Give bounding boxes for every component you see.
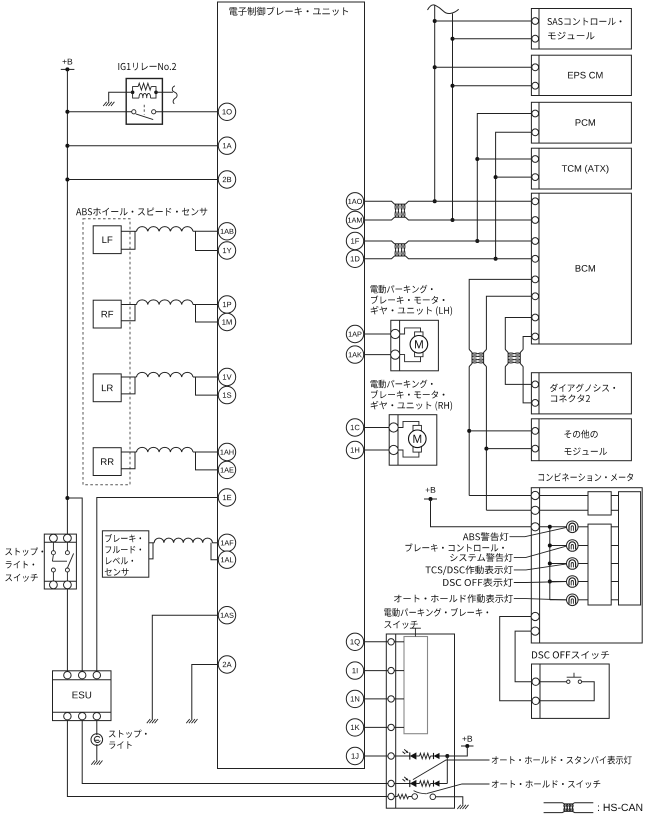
DSC OFF switch connector pins (532, 678, 539, 685)
cable break (wavy) at top (428, 5, 459, 14)
pin 1O (218, 103, 235, 120)
label ブレーキ・コントロール・システム警告灯 (405, 543, 504, 551)
wire to TCM pin 1 (477, 158, 531, 160)
lamp auto hold indicator (567, 594, 579, 606)
label コンビネーション・メータ (539, 473, 634, 481)
wire to other modules pin 2 (486, 448, 531, 450)
unit ESU (53, 671, 112, 721)
sensor LR (ABS wheel speed) (93, 374, 121, 402)
wire +B to 1J row (447, 746, 467, 756)
wire LR sensor to pins (paired cable with coil) (121, 376, 136, 378)
pin 1AS (218, 607, 235, 624)
wire meter to DSC OFF switch (2) (500, 617, 532, 701)
power +B (meter) (426, 487, 436, 493)
wire HS-CAN pins 1F/1D to BCM (twisted pair) (364, 241, 532, 244)
pin 1AE (218, 461, 235, 478)
lamp TCS/DSC indicator (567, 558, 579, 570)
wire pin 1AK to motor LH (364, 354, 391, 356)
wire HS-CAN pins 1AO/1AM to BCM (twisted pair) (364, 201, 532, 204)
pin 1AB (218, 223, 235, 240)
lamp brake control system warning (567, 540, 579, 552)
junction 1J row / +B (445, 754, 449, 758)
pin 1AK (346, 346, 363, 363)
junction on +B rail at 1O row (65, 110, 69, 114)
pin 1D (346, 250, 363, 267)
pin 1V (218, 368, 235, 385)
DSC OFF switch contacts (567, 680, 570, 683)
pin 1M (218, 313, 235, 330)
label TCS/DSC作動表示灯 (426, 566, 513, 576)
meter internal block (upper) (588, 492, 611, 515)
junction PCM branch / 1F row (475, 239, 479, 243)
parking brake switch actuator (414, 628, 416, 636)
pin 1Y (218, 242, 235, 259)
ground (stop light) (91, 761, 102, 765)
wire pin 1AP to motor LH (364, 333, 391, 335)
stop light switch blades (52, 555, 53, 562)
wire RF sensor to pins (paired cable with coil) (121, 304, 136, 306)
motor M (RH) (413, 425, 421, 430)
pin 1K (346, 719, 363, 736)
relay switch blade (136, 114, 153, 120)
switch 電動パーキング・ブレーキ・スイッチ box (386, 634, 454, 808)
wire ESU to auto-hold LED row (upper) (82, 720, 388, 784)
sensor RF (ABS wheel speed) (93, 300, 121, 328)
auto-hold switch contacts (412, 794, 418, 800)
wire PCM pin1 branch (477, 114, 531, 242)
wire +B rail branch to ESU (1E row) (67, 498, 82, 672)
wire ECU pins to parking brake switch (364, 641, 388, 643)
junction pair A / other-module row 1 (467, 429, 471, 433)
wire meter to DSC OFF switch (1) (515, 631, 531, 682)
connector pins motor (RH) (389, 423, 398, 432)
wire relay coil right lead (break) (156, 91, 173, 93)
wire relay coil to ground (109, 92, 133, 102)
pin 1AO (346, 193, 363, 210)
wire +B rail to pin 1A (67, 145, 218, 147)
relay mechanical link (dashed) (143, 105, 145, 115)
wire pin 1E to ESU (97, 498, 219, 672)
label 電動パーキング・ブレーキ・スイッチ (384, 608, 488, 617)
legend HS-CAN twisted pair symbol (544, 803, 594, 804)
pin 1AM (346, 211, 363, 228)
junction trunk A / SAS row (433, 19, 437, 23)
power +B (top left) (63, 59, 73, 65)
pin 2A (218, 656, 235, 673)
wire ESU to stop light bulb (96, 720, 98, 735)
connector pins motor (LH) (391, 329, 400, 338)
lamp ABS warning (567, 521, 579, 533)
wire fluid sensor to pins 1AF/1AL (paired cable with coil) (149, 542, 154, 544)
pin 1F (346, 232, 363, 249)
pin 1J (346, 747, 363, 764)
wire LF sensor to pins (paired cable with coil) (121, 230, 136, 232)
pin 1AP (346, 325, 363, 342)
twist symbol pair B (505, 349, 508, 366)
pin 1A (218, 137, 235, 154)
wire CAN trunk B (from break) (452, 14, 454, 220)
meter internal block (right) (619, 492, 641, 605)
relay resistor (parallel) (133, 87, 139, 93)
resistor (1J row) (416, 755, 419, 757)
wire IG1 relay contact to pin 1O (156, 111, 219, 113)
junction on +B rail at 2B row (65, 178, 69, 182)
junction trunk A / EPS row (433, 65, 437, 69)
label オート・ホールド作動表示灯 (394, 594, 513, 603)
diode (1J row) (431, 755, 434, 757)
junction pair A / other-module row 2 (484, 447, 488, 451)
junction lamp bus rows (548, 525, 552, 529)
wire +B rail down to stop light switch (66, 69, 68, 534)
junction trunk A / 1AO row (433, 199, 437, 203)
wire +B rail to pin 2B (67, 179, 218, 181)
unit parking brake motor (RH) box (389, 415, 437, 466)
lamp DSC OFF indicator (567, 576, 579, 588)
wire motor internal (LH) (400, 328, 421, 334)
sensor ブレーキ・フルード・レベル・センサ (102, 531, 148, 577)
diode (LED row 2) (431, 783, 434, 785)
sensor LF (ABS wheel speed) (93, 226, 121, 254)
resistor (LED row 2) (416, 783, 419, 785)
relay IG1リレーNo.2 (118, 63, 176, 71)
ECU box 電子制御ブレーキ・ユニット (218, 2, 365, 769)
wire pin 2A to ground (192, 665, 219, 720)
junction on +B rail at 1A row (65, 144, 69, 148)
legend text HS-CAN (598, 804, 642, 811)
junction on +B rail at 1E row (65, 496, 69, 500)
resistor (auto-hold switch row) (394, 796, 397, 798)
switch DSC OFF box (532, 664, 610, 718)
pin 1P (218, 296, 235, 313)
wire pin 1AS to ground (152, 615, 218, 719)
pin 1AF (218, 534, 235, 551)
wire RR sensor to pins (paired cable with coil) (121, 451, 136, 453)
wire +B rail to IG1 relay contact (67, 111, 131, 113)
wire switch rows to block (394, 641, 404, 643)
pin 1C (346, 419, 363, 436)
module その他のモジュール (531, 419, 631, 461)
wire to EPS CM pin 1 (435, 66, 532, 68)
pin 1E (218, 489, 235, 506)
wire PCM pin2 branch (496, 132, 532, 258)
power +B (switch) (462, 736, 472, 742)
DSC OFF switch actuator (567, 676, 582, 678)
wire to SAS control module pin 1 (435, 20, 532, 22)
LED auto-hold indicator row (394, 783, 410, 785)
wire stop light bulb to ground (96, 744, 98, 760)
module BCM (531, 193, 631, 344)
ground (2A) (186, 719, 197, 723)
label 電動パーキング・ブレーキ・モータ・ギヤ・ユニット (LH) (371, 285, 433, 294)
module EPS CM (531, 55, 631, 95)
wire motor internal (RH) (398, 421, 419, 427)
wire 1J junction down to LED row 2 (446, 756, 448, 784)
pin 1H (346, 441, 363, 458)
junction trunk B / EPS row (451, 84, 455, 88)
parking brake switch connector pins (388, 639, 394, 645)
label 電動パーキング・ブレーキ・モータ・ギヤ・ユニット (RH) (371, 380, 433, 389)
stop light switch connector pins (50, 534, 58, 542)
relay switch contacts (132, 110, 136, 114)
wire lamp to resistor block (auto hold indicator) (578, 599, 588, 601)
meter connector pins (531, 491, 539, 499)
relay coil node left (131, 91, 135, 95)
wire to TCM pin 2 (496, 176, 532, 178)
relay coil node right (154, 91, 158, 95)
label オート・ホールド・スイッチ (492, 780, 601, 788)
motor M (LH) (415, 332, 423, 337)
pin 1AH (218, 443, 235, 460)
wire lamp to resistor block (TCS/DSC indicator) (578, 563, 588, 565)
module PCM (531, 102, 631, 143)
pin 2B (218, 171, 235, 188)
wire lamp to resistor block (ABS warning) (578, 526, 588, 528)
wire meter pins to upper block (539, 495, 588, 497)
wire to SAS control module pin 2 (453, 38, 532, 40)
wire stop light switch to ESU (66, 589, 68, 672)
pin 1AL (218, 551, 235, 568)
wire to EPS CM pin 2 (453, 85, 532, 87)
ground (1AS) (147, 719, 158, 723)
unit parking brake motor (LH) box (391, 320, 439, 371)
meter lamp driver block (588, 524, 611, 605)
pin 1S (218, 386, 235, 403)
wire DSC OFF switch internal (539, 681, 566, 683)
wire lamp to resistor block (brake control system warning) (578, 545, 588, 547)
meter コンビネーション・メータ box (531, 488, 642, 643)
switch ストップ・ライト・スイッチ (5, 547, 43, 555)
lamp ストップ・ライト (stop light bulb) (91, 734, 103, 746)
junction trunk B / SAS row (451, 37, 455, 41)
wire +B to meter lamp feed (431, 499, 532, 527)
wire auto-hold switch to ground (436, 797, 463, 805)
auto-hold switch blade (414, 791, 427, 794)
junction PCM branch / TCM row (475, 157, 479, 161)
wire BCM pin5 to combination meter (twisted pair A) (469, 279, 531, 349)
twist symbol pair A (469, 349, 472, 366)
ground (IG1 relay coil) (103, 102, 114, 106)
module SASコントロール・モジュール (531, 9, 631, 50)
junction PCM2 branch / TCM row (494, 175, 498, 179)
wire BCM pin6 to combination meter (twisted pair A) (486, 296, 531, 349)
label DSC OFFスイッチ (532, 651, 609, 659)
junction trunk B / 1AM row (451, 218, 455, 222)
ABS sensors dashed enclosure (83, 219, 130, 485)
module TCM (ATX) (531, 148, 631, 189)
LED auto-hold standby row (1J) (394, 755, 410, 757)
wire BCM pin7 to diagnosis connector (twisted pair B) (505, 318, 531, 350)
label ABSホイール・スピード・センサ (76, 208, 207, 216)
wire to other modules pin 1 (469, 430, 531, 432)
parking brake switch internal block (404, 637, 428, 734)
label ABS警告灯 (463, 532, 509, 541)
ground (auto-hold switch) (457, 805, 468, 809)
pin 1I (346, 662, 363, 679)
wire lamp to resistor block (DSC OFF indicator) (578, 581, 588, 583)
stop light switch internal links (52, 542, 54, 551)
wire meter lamp bus (539, 526, 566, 528)
pin 1N (346, 690, 363, 707)
stop light switch contacts (51, 551, 55, 555)
wire ESU to auto-hold switch row (lower) (67, 720, 388, 797)
junction PCM2 branch / 1D row (494, 257, 498, 261)
pin 1Q (346, 633, 363, 650)
wire pin 1H to motor RH (364, 449, 390, 451)
label DSC OFF表示灯 (443, 578, 513, 587)
label オート・ホールド・スタンバイ表示灯 (492, 756, 632, 765)
wire CAN trunk A (from break) (434, 5, 436, 201)
connector ダイアグノシス・コネクタ2 (531, 373, 631, 414)
wire BCM pin8 to diagnosis connector (twisted pair B) (523, 337, 531, 350)
relay coil (133, 92, 139, 98)
wire pin 1C to motor RH (364, 427, 390, 429)
sensor RR (ABS wheel speed) (93, 448, 121, 476)
ESU connector pins (64, 672, 71, 679)
